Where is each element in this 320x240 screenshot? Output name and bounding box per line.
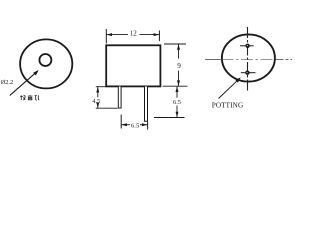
leader line to sound hole <box>10 71 37 95</box>
left pin <box>118 87 121 109</box>
bottom view body circle <box>222 34 275 81</box>
dim 6.5 bottom right extension tick <box>147 122 149 130</box>
potting leader arrowhead <box>235 77 241 83</box>
dim 4.5 bottom extension line <box>96 107 118 109</box>
svg-text:12: 12 <box>130 29 138 37</box>
horizontal centerline middle segment <box>222 58 276 60</box>
dim 9 bottom arrowhead <box>177 80 180 86</box>
svg-text:Ø2.2: Ø2.2 <box>1 79 14 86</box>
dim 6.5 right line upper part <box>176 86 178 97</box>
dim 9 line lower part <box>178 71 180 87</box>
dim 9 line upper part <box>178 44 180 58</box>
dim 6.5 right bottom arrowhead <box>176 112 179 118</box>
dim 9 top arrowhead <box>177 44 180 50</box>
svg-text:POTTING: POTTING <box>212 102 243 110</box>
dim 4.5 top extension line <box>96 86 106 88</box>
svg-text:4.5: 4.5 <box>92 98 100 105</box>
svg-text:9: 9 <box>177 62 181 70</box>
dim 12 line right part <box>140 34 160 36</box>
right pin <box>145 87 148 122</box>
dim 12 line left part <box>106 34 128 36</box>
dim 4.5 bottom arrowhead <box>96 102 99 108</box>
lower pin <box>245 71 249 75</box>
dim 4.5 top arrowhead <box>96 87 99 93</box>
dim 12 right arrowhead <box>154 33 160 36</box>
potting leader line <box>219 79 239 98</box>
leader arrowhead <box>33 70 39 76</box>
dim 4.5 line <box>97 87 99 97</box>
upper pin crosshair dash <box>240 45 254 47</box>
horizontal centerline right segment <box>276 58 293 60</box>
dim 6.5 bottom left extension tick <box>120 115 122 129</box>
dim 6.5 bottom left arrowhead <box>121 123 127 126</box>
dim 6.5 bottom right arrowhead <box>142 123 148 126</box>
dim 6.5 right top arrowhead <box>176 86 179 92</box>
label sound-hole text (CJK glyph strokes) <box>20 95 39 100</box>
dim 6.5 bottom line right part <box>140 124 148 126</box>
dim 12 right extension tick <box>158 31 160 42</box>
dim 6.5 bottom line left part <box>121 124 130 126</box>
sound hole circle <box>39 54 51 66</box>
dim 6.5 right line lower part <box>176 106 178 118</box>
horizontal centerline left segment <box>205 58 222 60</box>
upper pin <box>245 44 249 48</box>
dim 12 left extension tick <box>105 29 107 44</box>
dim 9 bottom extension line <box>163 85 188 87</box>
side view body rectangle <box>106 45 160 86</box>
dim 9 top extension line <box>164 43 186 45</box>
top view body circle <box>20 39 72 88</box>
dim 12 left arrowhead <box>106 33 112 36</box>
dim 6.5 right bottom extension line <box>154 117 185 119</box>
svg-text:6.5: 6.5 <box>173 99 181 106</box>
vertical centerline <box>247 27 249 92</box>
svg-text:6.5: 6.5 <box>131 123 140 130</box>
lower pin crosshair dash <box>241 72 256 74</box>
